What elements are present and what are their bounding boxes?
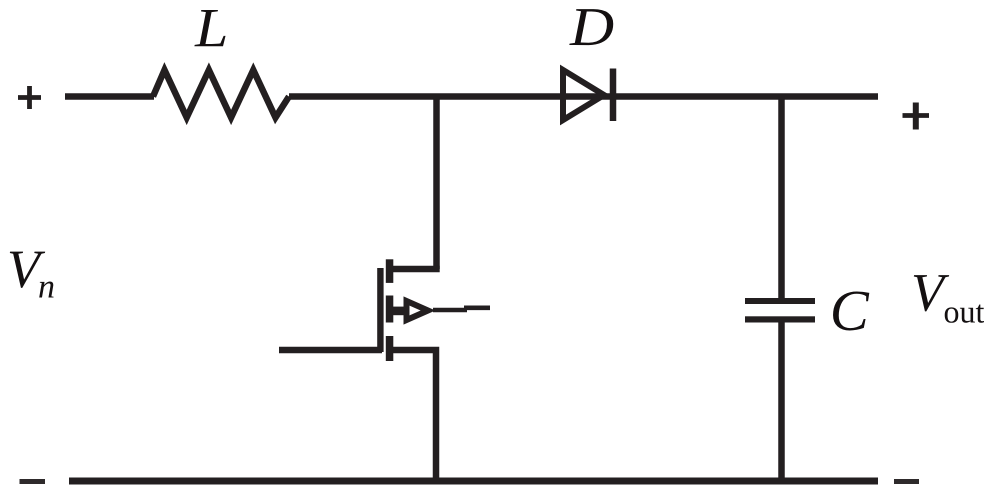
transistor Q1 body arrow xyxy=(407,301,429,320)
node: input negative terminal minus sign xyxy=(20,479,46,484)
wire: gate lead xyxy=(279,347,382,354)
wire: capacitor branch from top rail xyxy=(778,97,785,299)
transistor Q1 drain contact tick xyxy=(386,259,394,283)
diode D triangle xyxy=(563,70,604,120)
wire: top rail left segment xyxy=(65,93,154,100)
wire: drain horizontal lead xyxy=(390,266,440,273)
wire: switch node vertical (top rail to drain) xyxy=(433,97,440,270)
wire: body lead to the right xyxy=(433,308,490,310)
capacitor C bottom plate xyxy=(745,316,815,322)
transistor Q1 source contact tick xyxy=(386,336,394,361)
transistor Q1 body contact tick xyxy=(386,296,394,323)
node: input positive terminal plus sign xyxy=(18,86,41,109)
diode D cathode bar xyxy=(610,69,617,122)
inductor L (zigzag) xyxy=(153,70,289,118)
capacitor C top plate xyxy=(745,298,815,304)
label Vn (input voltage) xyxy=(10,252,45,288)
wire: body lead stub xyxy=(393,307,405,316)
label C xyxy=(833,291,869,330)
label L xyxy=(194,10,225,46)
label Vout (output voltage) xyxy=(914,275,949,311)
wire: capacitor to bottom rail xyxy=(778,323,785,481)
wire: top rail from inductor to right end xyxy=(289,93,878,100)
node: output negative terminal minus sign xyxy=(894,479,919,484)
node: output positive terminal plus sign xyxy=(903,103,930,130)
wire: source to bottom rail xyxy=(392,350,436,480)
label D xyxy=(569,9,613,45)
wire: bottom rail xyxy=(69,478,878,485)
transistor Q1 gate bar xyxy=(377,268,383,352)
